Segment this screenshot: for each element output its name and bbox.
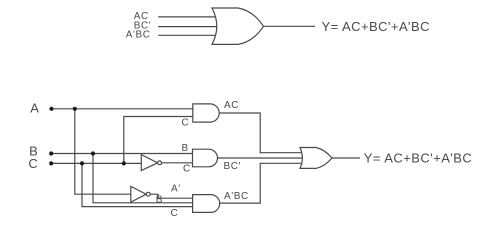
wire inverter U3 output A' to AND U6: [150, 194, 196, 198]
inverter U3 (A to A'): [131, 186, 146, 202]
svg-text:A'BC: A'BC: [224, 191, 249, 202]
and-gate U6 (A'BC): [193, 195, 220, 213]
wire C vertical up to AND U4 input C: [124, 117, 196, 164]
svg-text:Y= AC+BC'+A'BC: Y= AC+BC'+A'BC: [364, 150, 472, 165]
inverter U2 (C to C'): [141, 155, 157, 171]
wire A vertical to inverter U3: [75, 109, 133, 194]
or-gate U1 (top diagram): [212, 8, 264, 44]
wire OR1 input 2 (BC'): [158, 26, 218, 28]
svg-text:A': A': [171, 184, 181, 195]
svg-text:C: C: [183, 164, 191, 175]
svg-text:BC': BC': [224, 161, 242, 172]
wire BC' route to OR U7: [216, 157, 305, 159]
wire OR U7 output: [331, 157, 360, 159]
svg-text:A'BC: A'BC: [126, 29, 151, 40]
wire input B: [51, 153, 196, 155]
node input C terminal dot: [49, 161, 53, 165]
svg-text:Y= AC+BC'+A'BC: Y= AC+BC'+A'BC: [322, 19, 430, 34]
wire OR1 input 3 (A'BC): [158, 34, 218, 36]
svg-text:A: A: [30, 100, 39, 115]
node junction B: [91, 151, 95, 155]
or-gate U7 (output): [300, 148, 332, 169]
svg-text:C: C: [171, 208, 179, 219]
wire B vertical to AND U6 input B: [93, 154, 196, 203]
wire OR1 output: [263, 25, 315, 27]
svg-text:B: B: [156, 195, 163, 206]
svg-text:B: B: [182, 143, 189, 154]
node input A terminal dot: [49, 107, 53, 111]
node input B terminal dot: [49, 151, 53, 155]
svg-text:C: C: [182, 118, 190, 129]
node junction C2: [122, 161, 126, 165]
wire C vertical to AND U6 input C: [82, 163, 196, 206]
and-gate U4 (AC): [193, 104, 219, 122]
svg-text:AC: AC: [224, 100, 239, 111]
and-gate U5 (BC'): [193, 149, 218, 167]
node junction A: [73, 107, 77, 111]
node junction C1: [80, 161, 84, 165]
wire inverter U2 output C' to AND U5: [160, 162, 196, 164]
svg-text:C: C: [28, 156, 37, 171]
wire input C: [51, 162, 143, 164]
wire OR1 input 1 (AC): [158, 16, 218, 18]
wire AC route to OR U7: [218, 113, 305, 153]
wire A'BC route to OR U7: [218, 163, 305, 203]
wire input A: [52, 108, 197, 110]
